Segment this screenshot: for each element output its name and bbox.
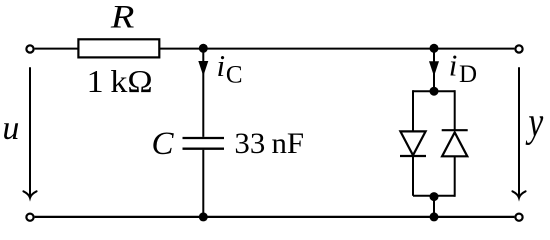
node A: junction at top of capacitor branch: [199, 44, 208, 53]
svg-text:33 nF: 33 nF: [234, 127, 304, 160]
wire: bottom rail middle segment: [203, 216, 434, 218]
terminal: bottom-right: [515, 214, 522, 221]
terminal: top-right output: [515, 45, 522, 52]
wire: node B to top-right terminal: [434, 48, 514, 50]
wire: top-left terminal to resistor: [35, 48, 78, 50]
wire: node A to node B: [203, 48, 434, 50]
terminal: bottom-left: [26, 214, 33, 221]
wire: right diode cathode stub: [454, 90, 456, 130]
voltage arrow u: open arrowhead: [23, 191, 36, 198]
wire: diode pair top rail: [413, 90, 455, 92]
capacitor C: bottom plate: [183, 148, 225, 150]
wire: resistor to node A: [160, 48, 204, 50]
label y: [525, 99, 543, 146]
svg-text:C: C: [151, 126, 174, 162]
wire: right diode anode stub: [454, 156, 456, 197]
svg-text:u: u: [2, 110, 19, 147]
voltage arrow y: shaft: [518, 67, 520, 196]
node: diode pair bottom junction: [430, 192, 439, 201]
wire: bottom rail left segment: [35, 216, 204, 218]
svg-text:iD: iD: [449, 48, 477, 88]
svg-text:1 kΩ: 1 kΩ: [87, 63, 153, 99]
wire: diode pair bottom rail: [413, 195, 455, 197]
wire: capacitor bottom plate to bottom rail: [202, 150, 204, 217]
current arrow iD: [429, 61, 439, 76]
diode D1: cathode bar: [400, 155, 426, 157]
wire: left diode anode stub: [412, 90, 414, 131]
resistor R: [78, 39, 159, 57]
wire: bottom rail right segment: [434, 216, 514, 218]
terminal: top-left input: [26, 45, 33, 52]
svg-text:y: y: [525, 99, 543, 146]
node: diode pair top junction: [430, 87, 439, 96]
current arrow iC: [198, 61, 208, 76]
wire: diode pair bottom node to bottom rail: [433, 196, 435, 217]
diode D2 (anode down, conducts upward): triangle: [442, 132, 467, 156]
svg-text:iC: iC: [217, 48, 243, 88]
node: diode branch junction on bottom rail: [430, 212, 439, 221]
voltage arrow u: shaft: [29, 67, 31, 196]
node B: junction at top of diode branch: [430, 44, 439, 53]
svg-text:R: R: [110, 0, 135, 36]
wire: left diode cathode stub: [412, 156, 414, 196]
capacitor C: top plate: [183, 137, 225, 139]
diode D1 (anode up, conducts downward): triangle: [400, 131, 425, 155]
wire: node B down to diode pair top node: [433, 49, 435, 92]
diode D2: cathode bar: [442, 129, 468, 131]
voltage arrow y: open arrowhead: [512, 191, 525, 198]
node: capacitor branch junction on bottom rail: [199, 212, 208, 221]
wire: node A down to capacitor top plate: [202, 49, 204, 137]
